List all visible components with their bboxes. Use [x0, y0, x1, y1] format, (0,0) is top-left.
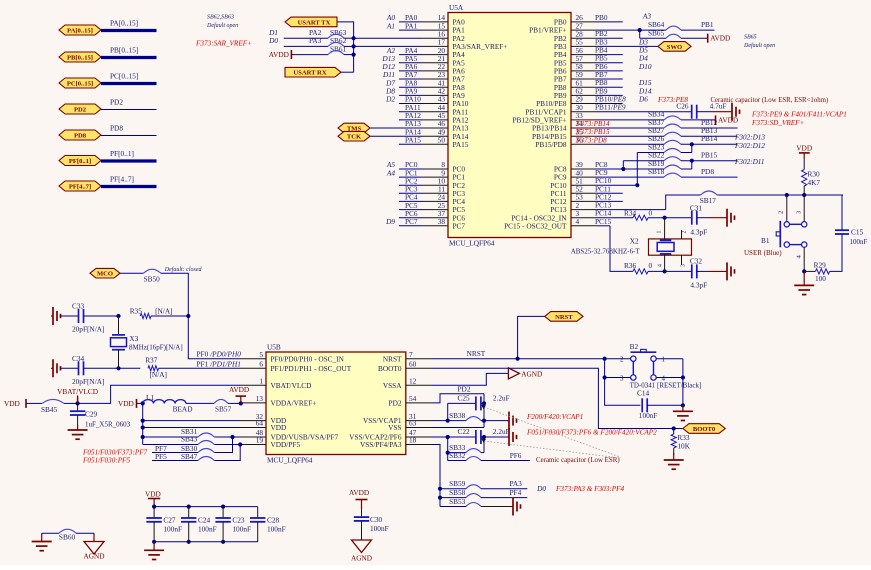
pin 22 PA6 (U5A left): [381, 62, 465, 75]
pin 31 VSS/VCAP1 (U5B right): [363, 412, 432, 425]
pin 34 PB13/PB14 (U5A right): [532, 119, 597, 132]
svg-text:SB65: SB65: [744, 35, 757, 41]
pin 63 VSS (U5B right): [388, 419, 432, 432]
port PC[0..15]: [59, 78, 101, 88]
svg-text:PC15 - OSC32_OUT: PC15 - OSC32_OUT: [504, 221, 567, 230]
label F373:PE9 and F401/F411:VCAP1: [751, 111, 847, 119]
wire row48 to SB31: [143, 427, 198, 437]
solder bridge SB60: [59, 529, 94, 541]
svg-text:PB15/PD8: PB15/PD8: [535, 140, 567, 149]
solder bridge SB37: [664, 118, 738, 128]
wire OSC_IN rail: [188, 316, 240, 359]
label F373:PE8: [657, 96, 688, 104]
power VDD (BEAD): [118, 399, 145, 408]
capacitor C25 2.2uF: [448, 393, 510, 410]
resistor R34 0: [624, 209, 667, 221]
ground (C33): [51, 307, 61, 325]
svg-text:1: 1: [259, 376, 263, 385]
svg-text:PA1: PA1: [405, 21, 418, 30]
svg-text:19: 19: [256, 436, 264, 445]
svg-text:100nF: 100nF: [850, 238, 868, 246]
pin 8 PC0 (U5A left): [386, 160, 466, 173]
svg-text:SB45: SB45: [41, 405, 58, 414]
svg-text:10K: 10K: [677, 442, 690, 451]
wire PC11: [595, 184, 623, 193]
svg-text:[N/A]: [N/A]: [155, 307, 172, 316]
svg-text:8MHz(16pF)[N/A]: 8MHz(16pF)[N/A]: [129, 344, 183, 352]
ground AGND (VSSA): [508, 368, 542, 379]
wire C25 left rail: [446, 403, 450, 422]
label D0 (PA3): [536, 484, 546, 493]
svg-text:PB[0..15]: PB[0..15]: [110, 46, 138, 55]
svg-text:AGND: AGND: [83, 552, 104, 561]
svg-text:MCU_LQFP64: MCU_LQFP64: [449, 239, 495, 248]
pin 26 PB0 (U5A right): [554, 13, 597, 26]
svg-text:SB62,SB63: SB62,SB63: [207, 15, 234, 21]
pin 7 NRST (U5B right): [383, 350, 432, 363]
wire PB1 net: [597, 20, 666, 32]
svg-text:ABS25-32.768KHZ-6-T: ABS25-32.768KHZ-6-T: [571, 247, 641, 255]
svg-text:R37: R37: [145, 356, 158, 365]
svg-text:20pF[N/A]: 20pF[N/A]: [72, 377, 104, 386]
wire PB11/PE9: [595, 102, 692, 112]
wire cap bank top rail: [152, 505, 258, 509]
svg-text:1: 1: [662, 356, 666, 364]
svg-text:AVDD: AVDD: [718, 115, 738, 124]
label F302:D13: [734, 134, 765, 142]
port PF[4..7]: [59, 181, 101, 191]
svg-text:AGND: AGND: [521, 369, 542, 378]
svg-text:0: 0: [649, 261, 653, 270]
svg-text:Default: closed: Default: closed: [164, 266, 203, 273]
port TCK: [338, 131, 370, 141]
pin 37 PC6 (U5A left): [399, 209, 465, 222]
solder bridge SB22: [664, 151, 738, 163]
svg-text:63: 63: [409, 419, 417, 428]
svg-text:D10: D10: [638, 62, 652, 71]
note ceramic capacitor (Low ESR): [536, 457, 620, 464]
svg-text:PF4: PF4: [510, 488, 522, 497]
port TMS: [338, 123, 370, 133]
svg-text:PD2: PD2: [389, 399, 402, 408]
solder bridge SB17: [700, 191, 843, 205]
svg-text:D0: D0: [268, 36, 278, 45]
svg-text:6: 6: [259, 360, 263, 369]
svg-text:2.2uF: 2.2uF: [493, 427, 510, 436]
wire pin35 to SB27: [575, 126, 665, 136]
svg-text:PA[0..15]: PA[0..15]: [67, 27, 93, 34]
svg-text:VBAT/VLCD: VBAT/VLCD: [57, 387, 98, 396]
bus PF[0..1]: [101, 149, 157, 161]
label F373:SD_VREF+: [751, 119, 805, 127]
svg-text:PA15: PA15: [453, 140, 469, 149]
svg-text:C29: C29: [85, 410, 98, 419]
capacitor C32 4.3pF: [665, 257, 708, 290]
wire PC8 net: [595, 160, 664, 171]
svg-text:PD8: PD8: [110, 124, 123, 133]
pin 40 PC9 (U5A right): [554, 168, 597, 181]
wire SB23 row: [637, 142, 664, 152]
solder bridge SB33: [466, 449, 484, 453]
wire B2 right rail: [656, 359, 685, 408]
note SB62,SB63 default open: [206, 15, 238, 30]
pin 29 PB10/PE8 (U5A right): [536, 95, 597, 108]
svg-text:PF6: PF6: [510, 451, 522, 460]
wire PC15 to R36: [595, 217, 633, 272]
label F373:SAR_VREF+: [195, 39, 252, 47]
svg-text:F302:D12: F302:D12: [734, 142, 765, 150]
wire PC13 net: [595, 195, 701, 210]
wire pin33 to SB34: [597, 110, 665, 120]
svg-text:U5A: U5A: [449, 3, 464, 12]
svg-text:AVDD: AVDD: [269, 50, 289, 59]
solder bridge SB58: [466, 488, 527, 498]
bus PC[0..15]: [101, 72, 157, 84]
label D14: [638, 86, 652, 95]
pin 52 PC11 (U5A right): [551, 185, 597, 198]
pin 43 PA10 (U5A left): [385, 95, 469, 108]
pin 35 PB14/PB15 (U5A right): [532, 127, 597, 140]
solder bridge SB26: [664, 134, 738, 146]
wire SB32 row: [448, 451, 466, 461]
svg-text:PB14: PB14: [701, 134, 718, 143]
pin 58 PB6 (U5A right): [554, 62, 597, 75]
svg-text:D0: D0: [536, 484, 546, 493]
pin 6 PF1/PD1/PH1 - OSC_OUT (U5B left): [240, 360, 352, 373]
port USART_TX: [285, 17, 337, 27]
wire PF5 to SB47: [152, 452, 198, 461]
svg-text:C27: C27: [163, 516, 176, 525]
wire pin36 to SB26: [575, 134, 665, 144]
label D5: [638, 46, 648, 55]
pin 64 VDD (U5B left): [240, 419, 286, 432]
svg-text:C31: C31: [690, 204, 703, 213]
svg-text:PB1: PB1: [701, 20, 714, 29]
svg-text:SB32: SB32: [449, 451, 466, 460]
svg-text:R36: R36: [624, 261, 637, 270]
pin 39 PC8 (U5A right): [554, 160, 597, 173]
wire PB8: [595, 78, 623, 87]
bus PB[0..15]: [101, 46, 157, 58]
svg-text:100nF: 100nF: [639, 411, 658, 420]
solder bridge SB45: [41, 399, 80, 414]
svg-text:SB53: SB53: [449, 497, 466, 506]
label D0: [268, 36, 278, 45]
svg-text:C33: C33: [72, 302, 85, 311]
svg-text:4K7: 4K7: [808, 178, 821, 187]
svg-text:A1: A1: [386, 21, 395, 30]
solder bridge SB19: [648, 159, 692, 169]
wire PB10/PE8: [595, 95, 648, 104]
svg-text:PC7: PC7: [453, 221, 466, 230]
pin 54 PD2 (U5B right): [389, 394, 432, 407]
port NRST: [545, 312, 583, 322]
wire SB23-PC10 link: [635, 153, 639, 188]
capacitor C31 4.3pF: [665, 204, 708, 237]
svg-text:Ceramic capacitor (Low ESR): Ceramic capacitor (Low ESR): [536, 457, 620, 464]
wire PF7 to SB30: [152, 444, 198, 453]
svg-text:VDD: VDD: [4, 399, 20, 408]
svg-text:4.3pF: 4.3pF: [690, 281, 707, 290]
svg-text:3: 3: [620, 374, 624, 382]
svg-text:PD2: PD2: [74, 106, 87, 113]
label PF1 net: [197, 359, 241, 368]
label D4: [638, 54, 648, 63]
power VDD (cap bank): [145, 490, 161, 507]
solder bridge SB62: [328, 42, 354, 46]
wire SB22-PC8 link: [622, 161, 624, 169]
solder bridge SB38: [466, 417, 508, 421]
svg-text:AVDD: AVDD: [710, 34, 730, 43]
resistor R36 0: [624, 261, 667, 274]
wire B1 pin4 to R29 node: [802, 247, 806, 273]
svg-text:D6: D6: [638, 95, 648, 104]
wire PA2 stub: [284, 28, 347, 38]
solder bridge SB32: [466, 451, 530, 461]
port PD2: [59, 104, 101, 114]
svg-text:TCK: TCK: [347, 134, 362, 141]
capacitor C14 100nF: [637, 389, 683, 421]
label D10: [638, 62, 652, 71]
svg-text:PD8: PD8: [701, 167, 714, 176]
svg-text:MCU_LQFP64: MCU_LQFP64: [267, 456, 313, 465]
pin 48 VDD/VUSB/VSA/PF7 (U5B left): [240, 428, 339, 441]
pin 33 PB12/SD_VREF+ (U5A right): [513, 111, 598, 124]
wire PB0: [595, 11, 651, 22]
svg-text:PC[0..15]: PC[0..15]: [67, 80, 93, 87]
svg-text:X2: X2: [630, 237, 639, 246]
wire PD8: [101, 124, 157, 136]
svg-text:VSSA: VSSA: [383, 381, 402, 390]
node X3 top: [116, 314, 120, 318]
svg-text:F373:PB14: F373:PB14: [575, 120, 610, 128]
svg-text:BOOT0: BOOT0: [693, 426, 716, 433]
svg-text:100nF: 100nF: [232, 525, 251, 534]
wire SB65 branch: [640, 29, 666, 39]
wire VDD row32: [143, 420, 240, 422]
pin 47 VSS/VCAP2/PF6 (U5B right): [349, 428, 432, 441]
svg-text:PF0/PD0/PH0 - OSC_IN: PF0/PD0/PH0 - OSC_IN: [271, 354, 345, 363]
svg-text:PF[0..1]: PF[0..1]: [110, 149, 134, 158]
crystal X3 8MHz: [111, 316, 183, 368]
power AVDD (PB1): [708, 34, 731, 43]
ground AGND (SB60): [83, 533, 104, 560]
svg-text:B1: B1: [761, 236, 770, 245]
svg-text:SB17: SB17: [700, 196, 717, 205]
svg-text:100nF: 100nF: [163, 525, 182, 534]
svg-text:4: 4: [576, 217, 580, 226]
svg-text:SB57: SB57: [215, 405, 232, 414]
port PD8: [59, 130, 101, 140]
svg-text:SB50: SB50: [144, 275, 161, 284]
power VDD (R30): [796, 144, 812, 159]
node PA2 junction: [352, 36, 356, 57]
svg-text:0: 0: [649, 209, 653, 218]
svg-text:BOOT0: BOOT0: [378, 364, 402, 373]
solder bridge SB31: [198, 433, 240, 439]
label PF0 net: [197, 350, 242, 359]
svg-text:2: 2: [620, 356, 624, 364]
pin 28 PB2 (U5A right): [554, 29, 597, 42]
svg-text:C23: C23: [232, 516, 245, 525]
pin 21 PA5 (U5A left): [381, 54, 465, 67]
svg-text:F302:D11: F302:D11: [734, 158, 764, 166]
wire PD2: [101, 98, 157, 110]
svg-text:38: 38: [438, 217, 446, 226]
svg-text:60: 60: [409, 360, 417, 369]
wire C22 left rail: [446, 437, 450, 461]
svg-text:PC[0..15]: PC[0..15]: [110, 72, 138, 81]
svg-text:AVDD: AVDD: [229, 385, 249, 394]
svg-text:F051/F030/F373:PF6 & F200/F420: F051/F030/F373:PF6 & F200/F420:VCAP2: [526, 429, 657, 437]
wire PD2 net: [432, 384, 484, 403]
svg-text:3: 3: [681, 264, 687, 267]
svg-text:MCO: MCO: [97, 271, 113, 278]
pin 1 VBAT/VLCD (U5B left): [240, 376, 311, 389]
solder bridge SB63: [328, 34, 354, 38]
svg-text:50: 50: [438, 136, 446, 145]
svg-text:18: 18: [409, 436, 417, 445]
pin 19 VDD/PF5 (U5B left): [240, 436, 300, 449]
pin 13 VDDA/VREF+ (U5B left): [240, 394, 316, 407]
svg-text:VSS/PF4/PA3: VSS/PF4/PA3: [360, 440, 402, 449]
pin 14 PA0 (U5A left): [386, 13, 465, 26]
pin 36 PB15/PD8 (U5A right): [535, 136, 597, 149]
svg-text:SB64: SB64: [648, 20, 665, 29]
svg-text:F200/F420:VCAP1: F200/F420:VCAP1: [526, 413, 583, 421]
svg-text:12: 12: [409, 376, 417, 385]
svg-text:NRST: NRST: [555, 314, 573, 321]
svg-text:C32: C32: [690, 257, 703, 266]
pin 2 PC13 (U5A right): [550, 201, 597, 214]
wire NRST arrow link: [516, 316, 545, 360]
svg-text:4.3pF: 4.3pF: [690, 228, 707, 237]
svg-text:SB38: SB38: [449, 411, 466, 420]
svg-text:VBAT/VLCD: VBAT/VLCD: [271, 381, 312, 390]
svg-text:BEAD: BEAD: [173, 405, 193, 414]
pin 23 PA7 (U5A left): [382, 70, 465, 83]
resistor R35 N/A: [130, 307, 191, 319]
svg-text:VDD/PF5: VDD/PF5: [271, 440, 301, 449]
pin 46 PA13 (U5A left): [370, 119, 469, 132]
port PB[0..15]: [59, 52, 101, 62]
label D1: [268, 28, 278, 37]
capacitor C34 20pF: [60, 354, 140, 386]
svg-text:L1: L1: [146, 393, 154, 402]
ground (cap bank): [144, 542, 164, 560]
power AVDD (USART): [269, 44, 347, 59]
svg-text:VDD: VDD: [145, 490, 161, 499]
svg-text:20pF[N/A]: 20pF[N/A]: [72, 325, 104, 334]
svg-text:PA3: PA3: [309, 36, 322, 45]
resistor R37 N/A: [145, 356, 240, 380]
svg-text:C15: C15: [851, 228, 864, 237]
capacitor C24 100nF: [181, 507, 217, 542]
svg-text:C24: C24: [198, 516, 211, 525]
svg-text:PC7: PC7: [405, 217, 418, 226]
svg-text:SB43: SB43: [181, 434, 198, 443]
svg-text:1: 1: [657, 231, 663, 234]
svg-text:PA3: PA3: [510, 479, 523, 488]
wire SB59 row: [440, 479, 466, 489]
wire SB33 row: [448, 443, 466, 453]
svg-text:PA[0..15]: PA[0..15]: [110, 19, 138, 28]
wire USART_TX to junction: [337, 22, 354, 72]
label F051/F030/F373:PF7: [82, 449, 148, 457]
svg-text:PF[4..7]: PF[4..7]: [69, 183, 91, 190]
wire NRST net: [432, 349, 607, 361]
svg-text:F373:PB15: F373:PB15: [575, 128, 610, 136]
port SWO: [658, 42, 691, 52]
svg-text:SB59: SB59: [449, 479, 466, 488]
svg-text:USART TX: USART TX: [298, 19, 331, 26]
svg-text:1uF_X5R_0603: 1uF_X5R_0603: [85, 421, 131, 429]
wire C25 right rail: [482, 394, 486, 428]
pin 60 BOOT0 (U5B right): [378, 360, 432, 373]
svg-text:PD8: PD8: [74, 132, 87, 139]
ground (B2/C14): [673, 405, 693, 420]
inductor L1 BEAD: [143, 393, 214, 414]
svg-text:F373:SAR_VREF+: F373:SAR_VREF+: [195, 39, 252, 47]
svg-text:13: 13: [256, 394, 264, 403]
svg-text:PF[4..7]: PF[4..7]: [110, 175, 134, 184]
ground (R29): [794, 271, 814, 294]
button B1 USER(Blue): [744, 195, 807, 259]
svg-text:AGND: AGND: [351, 554, 372, 563]
svg-text:R35: R35: [130, 307, 143, 316]
pin 18 VSS/PF4/PA3 (U5B right): [360, 436, 432, 449]
wire MCO to SB50: [120, 273, 160, 283]
svg-text:100: 100: [815, 274, 826, 283]
resistor R29 100: [804, 261, 829, 284]
pin 51 PC10 (U5A right): [550, 176, 597, 189]
capacitor C23 100nF: [215, 507, 251, 542]
svg-text:USART RX: USART RX: [293, 70, 326, 77]
pin 41 PA8 (U5A left): [385, 78, 465, 91]
pin 25 PC5 (U5A left): [399, 201, 465, 214]
ground (C22 row): [507, 428, 517, 446]
port MCO: [90, 268, 120, 278]
svg-text:U5B: U5B: [267, 343, 281, 352]
solder bridge SB50: [144, 269, 189, 316]
solder bridge SB65: [666, 34, 708, 38]
ground (C31): [708, 209, 735, 227]
solder bridge SB18: [648, 167, 738, 177]
svg-text:4: 4: [658, 264, 664, 267]
pin 4 PC15 - OSC32_OUT (U5A right): [504, 217, 597, 230]
leader to C25: [481, 405, 620, 458]
pin 56 PB4 (U5A right): [554, 46, 597, 59]
capacitor C28 100nF: [250, 507, 286, 542]
solder bridge SB30: [198, 437, 233, 453]
svg-text:SB60: SB60: [59, 532, 76, 541]
capacitor C30 100nF: [354, 509, 389, 540]
label F200/F420:VCAP1: [526, 413, 583, 421]
wire pin34 to SB37: [575, 118, 665, 128]
svg-text:VDD: VDD: [118, 399, 134, 408]
pin 24 PC4 (U5A left): [399, 193, 465, 206]
svg-text:[N/A]: [N/A]: [150, 370, 167, 379]
ground (C32): [708, 262, 735, 280]
svg-text:VDD: VDD: [796, 144, 812, 153]
svg-text:PD2: PD2: [458, 384, 471, 393]
svg-text:D9: D9: [385, 217, 395, 226]
wire pin31 to SB38: [432, 411, 466, 421]
wire C22 right rail: [483, 437, 485, 453]
power AVDD (C30): [349, 488, 369, 509]
pin 3 PC14 - OSC32_IN (U5A right): [511, 209, 597, 222]
wire PB7: [595, 70, 623, 79]
